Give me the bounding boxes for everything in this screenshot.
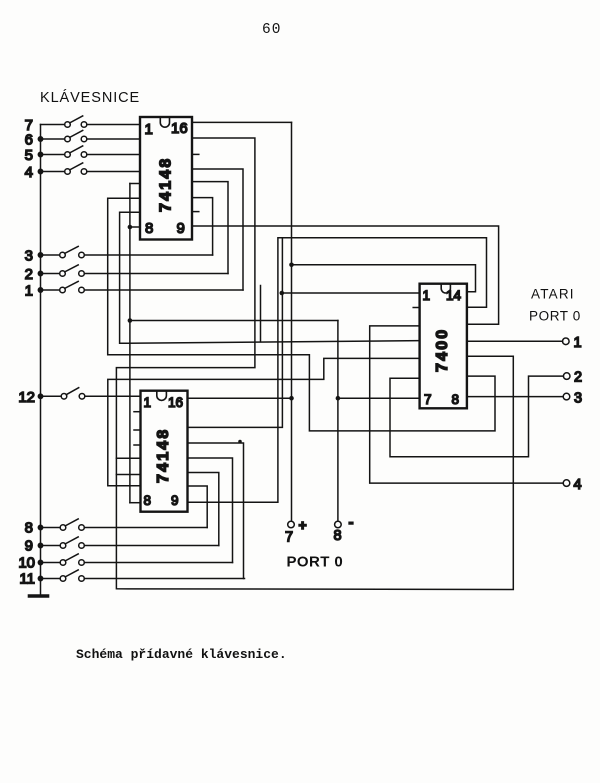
junction minus riser / U3 pin7 line	[336, 396, 341, 401]
terminal port 2	[563, 373, 570, 380]
terminal - (port pin 8)	[335, 521, 342, 528]
svg-text:4: 4	[25, 164, 33, 181]
U2 unused pin stub left y430	[134, 429, 141, 431]
terminal port 4	[563, 480, 570, 487]
svg-text:ATARI: ATARI	[531, 287, 575, 302]
wire GND branch to minus riser	[130, 320, 338, 322]
wire short vertical x260	[260, 286, 262, 342]
wire U2 pin16	[188, 397, 292, 399]
wire branch to U2 left pin y458	[116, 457, 140, 459]
svg-text:60: 60	[262, 22, 281, 38]
wire U2 right pin y427 riser	[188, 238, 283, 428]
svg-text:1: 1	[144, 395, 152, 410]
wire row3 riser to U1	[192, 198, 213, 255]
IC U2 74148 (bottom) body	[141, 391, 188, 512]
svg-text:9: 9	[25, 538, 33, 555]
wire VCC riser down to + terminal	[291, 122, 293, 521]
svg-text:8: 8	[145, 220, 153, 237]
wire net H1: U1 left pin y212 to U3 left pin	[120, 212, 420, 343]
junction GND / U1 pin8	[128, 225, 133, 230]
svg-text:9: 9	[177, 220, 185, 237]
ground symbol	[30, 594, 48, 598]
junction GND branch	[128, 318, 133, 323]
switch S7	[41, 116, 141, 127]
svg-text:14: 14	[446, 288, 462, 303]
svg-text:9: 9	[171, 493, 179, 508]
junction riser / U3 pin1 line	[280, 291, 285, 296]
terminal + (port pin 7)	[288, 521, 295, 528]
terminal port 1	[563, 338, 570, 345]
junction artifact dot	[238, 440, 242, 444]
svg-text:74148: 74148	[155, 428, 172, 484]
terminal port 3	[563, 393, 570, 400]
svg-text:2: 2	[25, 266, 33, 283]
svg-text:8: 8	[25, 520, 33, 537]
svg-text:8: 8	[144, 493, 152, 508]
wire U3 pin8 output to port 3	[467, 396, 563, 398]
wire VCC branch to U3 pin14	[292, 265, 476, 292]
wire row2 riser to U1	[192, 182, 228, 274]
wire net EO2: U2 pin to U3 via y379	[108, 358, 420, 485]
svg-text:1: 1	[423, 288, 431, 303]
IC U3 7400 body	[420, 284, 467, 409]
wire U3 left pin y325 to port 4	[370, 326, 564, 483]
U2 unused pin stub left y445	[134, 444, 141, 446]
svg-text:8: 8	[452, 392, 460, 407]
switch S6	[38, 130, 140, 141]
ground bus (left common rail)	[40, 125, 42, 595]
svg-text:1: 1	[574, 335, 582, 351]
svg-text:KLÁVESNICE: KLÁVESNICE	[40, 89, 140, 106]
svg-text:7400: 7400	[434, 328, 451, 372]
svg-text:7: 7	[424, 392, 432, 407]
svg-text:12: 12	[18, 389, 35, 406]
switch S11	[38, 570, 244, 581]
switch S5	[38, 146, 140, 157]
svg-text:74148: 74148	[158, 157, 175, 213]
svg-text:16: 16	[168, 395, 183, 410]
svg-text:4: 4	[574, 477, 582, 493]
U3 unused pin stub left y307	[413, 307, 419, 309]
junction VCC / 7400 supply branch	[289, 263, 294, 268]
svg-text:6: 6	[25, 132, 33, 149]
wire branch to U2 left pin y474	[116, 474, 140, 476]
U2 unused pin stub left y411	[134, 411, 141, 413]
switch S3	[38, 246, 212, 257]
wire U1 pin9 to U3 right pin	[192, 226, 499, 324]
svg-text:1: 1	[145, 121, 153, 138]
switch S4	[38, 163, 140, 174]
wire U1 pin8	[130, 226, 140, 228]
svg-text:1: 1	[25, 283, 33, 300]
wire net EI: U1 left pin y198 down	[108, 198, 495, 431]
wire U3 output to port 1	[467, 340, 563, 342]
wire minus riser	[337, 321, 339, 522]
wire row9 to U2 right pin y472	[188, 473, 219, 546]
wire VCC: U1 pin16 to riser	[192, 121, 292, 123]
wire row1 riser to U1	[192, 169, 243, 290]
svg-text:16: 16	[171, 120, 188, 137]
svg-text:10: 10	[18, 555, 35, 572]
junction VCC / U2 pin16	[289, 396, 294, 401]
svg-text:7: 7	[285, 530, 293, 546]
switch S1	[38, 281, 243, 292]
wire row10 to U2 right pin y458	[188, 458, 233, 563]
wire GND riser	[129, 184, 131, 503]
wire row8 to U2 right pin y486	[188, 486, 208, 528]
svg-text:11: 11	[19, 571, 35, 588]
wire net Y238: U2 pin9 riser across to U3	[188, 238, 487, 503]
wire U2 pin8	[130, 502, 141, 504]
wire to U3 pin1	[282, 292, 420, 294]
svg-text:Schéma přídavné klávesnice.: Schéma přídavné klávesnice.	[76, 647, 287, 662]
switch S9	[38, 537, 219, 548]
svg-text:3: 3	[574, 391, 582, 407]
switch S8	[38, 519, 207, 530]
svg-text:+: +	[299, 517, 307, 533]
wire to U3 pin7	[338, 397, 420, 399]
U1 unused pin stub right y211	[192, 211, 199, 213]
svg-text:2: 2	[574, 370, 582, 386]
wire U3 feedback to port 2	[390, 376, 563, 457]
U1 unused pin stub right y154	[192, 153, 199, 155]
svg-text:PORT 0: PORT 0	[287, 554, 344, 571]
svg-text:5: 5	[25, 147, 33, 164]
IC U1 74148 (top) body	[140, 117, 192, 240]
switch S12	[38, 388, 140, 399]
wire row11 to U2 right pin y443	[188, 443, 244, 579]
switch S2	[38, 265, 228, 276]
svg-text:8: 8	[334, 528, 342, 544]
svg-text:3: 3	[25, 248, 33, 265]
svg-text:PORT 0: PORT 0	[529, 309, 581, 324]
wire net U1pin15 loop to U2 and bottom bus	[116, 138, 513, 590]
switch S10	[38, 554, 232, 565]
wire GND: U1 left pin y183	[130, 183, 140, 185]
svg-text:-: -	[349, 514, 354, 531]
